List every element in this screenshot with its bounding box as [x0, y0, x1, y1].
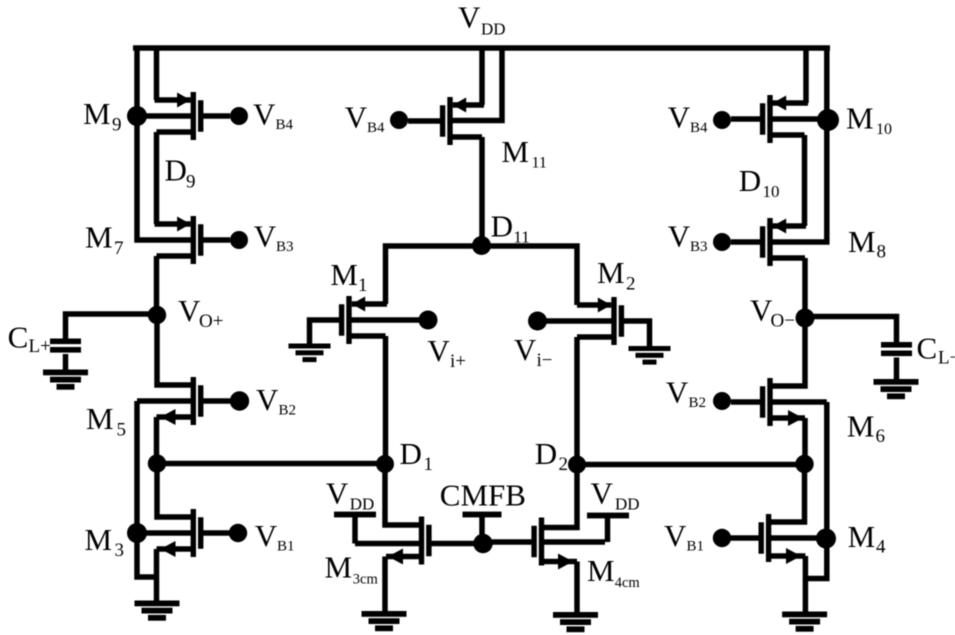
svg-text:3: 3 — [115, 540, 125, 561]
wire left node to M3 drain — [157, 464, 193, 518]
svg-text:9: 9 — [186, 172, 196, 193]
label CMFB — [440, 478, 526, 513]
svg-text:2: 2 — [559, 454, 569, 475]
gate bias terminal VB1 of M3 — [229, 524, 247, 542]
capacitor CL- — [881, 342, 912, 380]
label VB4 (center) — [345, 100, 385, 137]
svg-text:V: V — [326, 476, 349, 511]
svg-text:M: M — [501, 134, 529, 169]
label M7 — [85, 220, 124, 259]
input terminal Vi- — [528, 312, 547, 331]
wire right node to M4 drain — [769, 464, 805, 522]
ground under M3 — [135, 601, 180, 621]
node VO- — [796, 309, 815, 328]
svg-text:M: M — [85, 522, 113, 557]
svg-text:4: 4 — [876, 537, 886, 558]
label VB2 (right) — [666, 375, 706, 412]
svg-text:B1: B1 — [277, 538, 295, 554]
svg-text:V: V — [458, 0, 481, 35]
label M6 — [847, 409, 885, 448]
svg-text:C: C — [917, 331, 938, 366]
wire VDD bulk line to M8 bulk — [770, 46, 827, 242]
svg-text:M: M — [848, 224, 876, 259]
node D11 (tail) — [472, 236, 491, 255]
svg-text:M: M — [848, 519, 876, 554]
svg-text:V: V — [255, 518, 278, 553]
svg-text:D: D — [739, 163, 761, 198]
transistor M4 (NMOS current sink) — [731, 514, 827, 612]
label CL+ — [8, 320, 51, 358]
label M2 — [597, 255, 636, 295]
svg-text:V: V — [178, 293, 201, 328]
label M1 — [330, 257, 367, 296]
svg-text:V: V — [253, 96, 276, 131]
label M8 — [848, 224, 886, 263]
svg-text:1: 1 — [424, 454, 434, 475]
svg-text:9: 9 — [112, 115, 122, 136]
svg-text:10: 10 — [876, 121, 892, 138]
transistor M1 (PMOS bulk-driven input +) — [310, 296, 420, 464]
svg-text:V: V — [254, 218, 277, 253]
svg-text:M: M — [847, 409, 875, 444]
node left cascode (M5 source / M3 drain) — [148, 454, 166, 472]
ground under M3cm — [362, 611, 407, 631]
label VB3 (right) — [668, 219, 708, 256]
svg-text:CMFB: CMFB — [440, 478, 526, 513]
wire VO- to load capacitor CL- — [805, 317, 897, 343]
label M9 — [83, 96, 122, 136]
node M3 bulk — [127, 523, 147, 543]
svg-text:8: 8 — [877, 242, 887, 263]
transistor M4cm (NMOS common-mode feedback) — [492, 518, 605, 613]
svg-text:DD: DD — [481, 20, 506, 39]
label VB3 (left) — [254, 218, 294, 255]
svg-text:D: D — [535, 436, 557, 471]
svg-text:O+: O+ — [199, 311, 223, 332]
svg-text:M: M — [330, 257, 358, 292]
label D11 — [491, 209, 530, 247]
svg-text:V: V — [514, 332, 537, 367]
wire D10: M10 drain to M8 source — [802, 135, 808, 226]
transistor M10 (PMOS, bulk-driven cascode) — [731, 46, 829, 143]
capacitor CL+ — [50, 339, 81, 371]
svg-text:M: M — [83, 96, 111, 131]
svg-text:DD: DD — [350, 495, 375, 514]
node right cascode (M6 source / M4 drain) — [795, 455, 813, 473]
label VB1 (left) — [255, 518, 295, 555]
wire D1 to M3cm drain — [385, 464, 422, 525]
node CMFB — [473, 534, 492, 553]
svg-text:DD: DD — [615, 495, 640, 514]
svg-text:B4: B4 — [690, 120, 708, 136]
svg-text:6: 6 — [876, 426, 886, 447]
svg-text:V: V — [666, 375, 689, 410]
label D2 — [535, 436, 568, 475]
svg-text:B2: B2 — [689, 395, 707, 411]
ground at M2 gate — [629, 346, 671, 365]
svg-text:5: 5 — [117, 420, 127, 441]
label M5 — [86, 401, 126, 441]
ground at M1 gate — [289, 344, 331, 363]
label VB1 (right) — [664, 518, 704, 555]
svg-text:C: C — [8, 320, 29, 355]
node M4 bulk — [816, 529, 836, 549]
label VB4 (right) — [668, 100, 708, 137]
transistor M11 (PMOS tail current source) — [408, 46, 502, 246]
gate bias terminal VB1 of M4 — [713, 529, 731, 547]
gate bias terminal VB4 of M9 — [230, 107, 248, 125]
label M4 — [848, 519, 886, 558]
svg-text:D: D — [400, 436, 422, 471]
node VO+ — [148, 306, 166, 324]
transistor M2 (PMOS bulk-driven input -) — [546, 297, 650, 465]
wire D11 to M1 and M2 sources — [386, 246, 578, 305]
transistor M3cm (NMOS common-mode feedback) — [355, 517, 474, 612]
label D9 — [165, 153, 196, 193]
label VDD (bottom right) — [591, 476, 640, 514]
supply tap VDD at M3cm bulk — [334, 512, 376, 544]
wire VO- to M6 drain — [770, 318, 805, 386]
svg-text:M: M — [846, 101, 874, 136]
label Vi+ — [427, 333, 466, 372]
svg-text:1: 1 — [358, 275, 368, 296]
svg-text:B4: B4 — [276, 117, 294, 133]
ground under CL- — [874, 379, 919, 399]
wire left node to D1 — [157, 461, 385, 467]
svg-text:B3: B3 — [276, 239, 294, 255]
label M4cm — [587, 553, 640, 591]
svg-text:M: M — [325, 550, 353, 585]
wire VO+ to load capacitor CL+ — [66, 314, 158, 339]
transistor M9 (PMOS, bulk-driven cascode) — [135, 46, 230, 140]
ground under CL+ — [43, 370, 88, 390]
svg-text:M: M — [597, 255, 625, 290]
svg-text:i+: i+ — [450, 351, 466, 372]
svg-text:2: 2 — [626, 274, 636, 295]
label CL- — [917, 331, 955, 369]
svg-text:V: V — [256, 382, 279, 417]
label VB2 (left) — [256, 382, 296, 419]
transistor M5 (NMOS cascode) — [137, 377, 230, 464]
svg-text:V: V — [664, 518, 687, 553]
label VO+ — [178, 293, 223, 332]
label VDD (bottom left) — [326, 476, 374, 514]
label VO- — [750, 293, 795, 332]
svg-text:V: V — [427, 333, 450, 368]
svg-text:M: M — [85, 220, 113, 255]
ground under M4 — [782, 612, 827, 632]
label D10 — [739, 163, 780, 201]
svg-text:11: 11 — [532, 155, 547, 172]
svg-text:4cm: 4cm — [615, 575, 641, 591]
svg-text:V: V — [591, 476, 614, 511]
input terminal Vi+ — [419, 311, 438, 330]
supply tap VDD at M4cm bulk — [587, 513, 629, 542]
svg-text:10: 10 — [763, 182, 780, 201]
svg-text:M: M — [86, 401, 114, 436]
wire D9: M9 drain to M7 source — [154, 132, 160, 224]
control tap CMFB — [463, 512, 502, 544]
label M10 — [846, 101, 892, 139]
svg-text:O−: O− — [771, 311, 795, 332]
svg-text:D: D — [165, 153, 187, 188]
svg-text:V: V — [345, 100, 368, 135]
node D1 — [376, 455, 394, 473]
svg-text:7: 7 — [114, 238, 124, 259]
gate bias terminal VB3 of M7 — [230, 231, 248, 249]
gate bias terminal VB3 of M8 — [713, 233, 731, 251]
gate bias terminal VB2 of M6 — [713, 392, 731, 410]
svg-text:B2: B2 — [279, 403, 297, 419]
wire D2 to M4cm drain — [542, 465, 578, 528]
gate bias terminal VB4 of M11 — [390, 111, 408, 129]
svg-text:B1: B1 — [687, 539, 705, 555]
svg-text:V: V — [668, 100, 691, 135]
node M9 bulk on VDD line — [127, 106, 147, 126]
wire D2 to right node — [577, 462, 805, 468]
node D2 — [568, 456, 586, 474]
wire M6 bulk line down to M4 bulk and source — [806, 402, 827, 579]
transistor M7 (PMOS cascode) — [155, 216, 231, 315]
svg-text:D: D — [491, 209, 513, 244]
svg-text:M: M — [587, 553, 615, 588]
svg-text:i−: i− — [537, 350, 553, 371]
label M3 — [85, 522, 125, 561]
label Vi- — [514, 332, 553, 371]
gate bias terminal VB2 of M5 — [230, 391, 249, 410]
svg-text:V: V — [668, 219, 691, 254]
wire M5 bulk line down to M3 bulk and source — [137, 401, 158, 577]
label M3cm — [325, 550, 379, 588]
wire VDD rail — [133, 45, 830, 51]
svg-text:B3: B3 — [690, 239, 708, 255]
label VB4 (left) — [253, 96, 294, 133]
ground under M4cm — [553, 612, 598, 632]
label D1 — [400, 436, 434, 475]
svg-text:B4: B4 — [367, 120, 385, 136]
transistor M6 (NMOS cascode) — [731, 378, 827, 465]
svg-text:L−: L− — [938, 348, 955, 369]
svg-text:L+: L+ — [29, 336, 51, 357]
wire VO+ to M5 drain — [157, 315, 193, 385]
transistor M3 (NMOS current sink) — [137, 509, 230, 601]
label VDD (top) — [458, 0, 506, 39]
transistor M8 (PMOS cascode) — [731, 218, 806, 318]
gate bias terminal VB4 of M10 — [713, 111, 731, 129]
wire VDD bulk line to M7 bulk — [137, 46, 193, 240]
label M11 — [501, 134, 547, 172]
svg-text:3cm: 3cm — [353, 572, 379, 588]
node M10 bulk on VDD line — [817, 109, 839, 131]
